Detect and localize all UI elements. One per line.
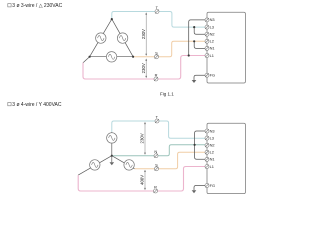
terminal R (phase tap) <box>154 73 158 82</box>
svg-text:L2: L2 <box>210 39 214 44</box>
svg-text:400V: 400V <box>140 175 145 185</box>
terminal L3 (top block) <box>205 24 214 29</box>
terminal L1 (bottom block) <box>205 164 214 169</box>
ac source G6 (lower-right leg of Y) <box>124 160 134 170</box>
delta winding side A-BR <box>112 19 133 57</box>
svg-text:230V: 230V <box>141 29 146 39</box>
terminal L2 (bottom block) <box>205 150 214 155</box>
svg-text:N2: N2 <box>210 32 215 37</box>
dimension 400V <box>140 170 146 190</box>
jumper L3 to N2 <box>194 27 205 34</box>
Y winding lower-right leg <box>112 156 135 169</box>
svg-text:N2: N2 <box>210 143 215 148</box>
svg-text:FG: FG <box>210 183 215 188</box>
wire S phase (orange) Y right leg to L2 <box>135 152 206 169</box>
ground at Y center <box>111 156 113 163</box>
wire R phase (pink) delta left to L1 <box>83 56 205 80</box>
terminal N1 (top block) <box>205 46 215 51</box>
wire T phase (cyan) delta top to L3 <box>112 12 205 28</box>
delta winding side A-BL <box>90 19 112 57</box>
terminal N1 (bottom block) <box>205 157 215 162</box>
svg-text:R: R <box>155 73 158 78</box>
svg-text:L3: L3 <box>210 24 214 29</box>
terminal FG (bottom block) <box>205 183 215 188</box>
svg-text:Fig 1.1: Fig 1.1 <box>160 91 174 96</box>
svg-text:230V: 230V <box>141 63 146 73</box>
ac source G5 (lower-left leg of Y) <box>90 160 100 170</box>
wire R phase (pink) Y left leg to L1 <box>78 167 205 192</box>
junction bus on pink L1 wire <box>188 54 190 56</box>
wire T phase (cyan) Y top to L3 <box>112 121 205 138</box>
svg-text:230V: 230V <box>140 133 145 143</box>
jumper L2 to N1 <box>194 41 205 48</box>
dimension 230V <box>141 59 147 79</box>
terminal T (bottom diagram tap) <box>155 115 159 124</box>
wire black neutral bus N3-N2-N1 <box>195 131 205 159</box>
terminal FG (top block) <box>205 73 215 78</box>
ground (bottom block) <box>192 190 197 193</box>
terminal T (phase tap) <box>155 5 159 14</box>
node Y center <box>111 155 113 157</box>
terminal L2 (top block) <box>205 39 214 44</box>
wire black bus R-phase to N3 <box>189 20 205 56</box>
node delta right vertex <box>132 56 134 58</box>
terminal N (bottom diagram tap) <box>154 149 158 158</box>
svg-text:L2: L2 <box>210 150 214 155</box>
svg-text:L1: L1 <box>210 164 214 169</box>
ac source G4 (top leg of Y) <box>107 133 117 143</box>
terminal S (phase tap) <box>155 50 159 59</box>
terminal R (bottom diagram tap) <box>154 185 158 194</box>
junction bus on teal N2 wire <box>194 144 196 146</box>
svg-text:S: S <box>155 50 158 55</box>
Y winding lower-left leg <box>78 156 112 175</box>
ground (top block) <box>192 80 197 83</box>
terminal N3 (bottom block) <box>205 128 215 133</box>
terminal L1 (top block) <box>205 53 214 58</box>
terminal N3 (top block) <box>205 17 215 22</box>
svg-text:3 ø 4-wire / Y 400VAC: 3 ø 4-wire / Y 400VAC <box>12 102 62 108</box>
svg-text:L1: L1 <box>210 53 214 58</box>
dimension 230V <box>140 122 146 155</box>
svg-text:S: S <box>155 162 158 167</box>
junction jumper on cyan L3 wire <box>193 26 195 28</box>
svg-text:R: R <box>154 185 157 190</box>
svg-text:N3: N3 <box>210 128 215 133</box>
svg-text:3 ø 3-wire / △ 230VAC: 3 ø 3-wire / △ 230VAC <box>12 3 62 9</box>
Y winding top leg <box>111 132 113 156</box>
device box top <box>207 12 245 83</box>
title checkbox <box>8 4 11 7</box>
svg-text:N3: N3 <box>210 17 215 22</box>
ac source G2 (right side of delta) <box>117 33 127 43</box>
svg-text:N: N <box>154 149 157 154</box>
node delta top vertex <box>111 18 113 20</box>
wire FG to ground (top block) <box>194 75 205 80</box>
ac source G3 (bottom side of delta) <box>106 52 116 62</box>
svg-text:N1: N1 <box>210 46 215 51</box>
terminal N2 (top block) <box>205 32 215 37</box>
terminal L3 (bottom block) <box>205 135 214 140</box>
terminal N2 (bottom block) <box>205 143 215 148</box>
junction jumper on orange L2 wire <box>193 40 195 42</box>
title checkbox <box>8 103 11 106</box>
wire N neutral (teal) Y center to N2 <box>112 145 205 156</box>
svg-text:FG: FG <box>210 73 215 78</box>
svg-text:L3: L3 <box>210 135 214 140</box>
svg-text:N1: N1 <box>210 157 215 162</box>
wire FG to ground (bottom block) <box>194 186 205 191</box>
node delta left vertex <box>89 56 91 58</box>
wire S phase (orange) delta right to L2 <box>133 41 205 56</box>
device box bottom <box>207 123 245 193</box>
delta winding side BL-BR <box>90 56 134 58</box>
wire stub from delta left vertex <box>83 57 90 63</box>
dimension 230V <box>141 12 147 56</box>
ac source G1 (left side of delta) <box>96 33 106 43</box>
terminal S (bottom diagram tap) <box>155 162 159 171</box>
